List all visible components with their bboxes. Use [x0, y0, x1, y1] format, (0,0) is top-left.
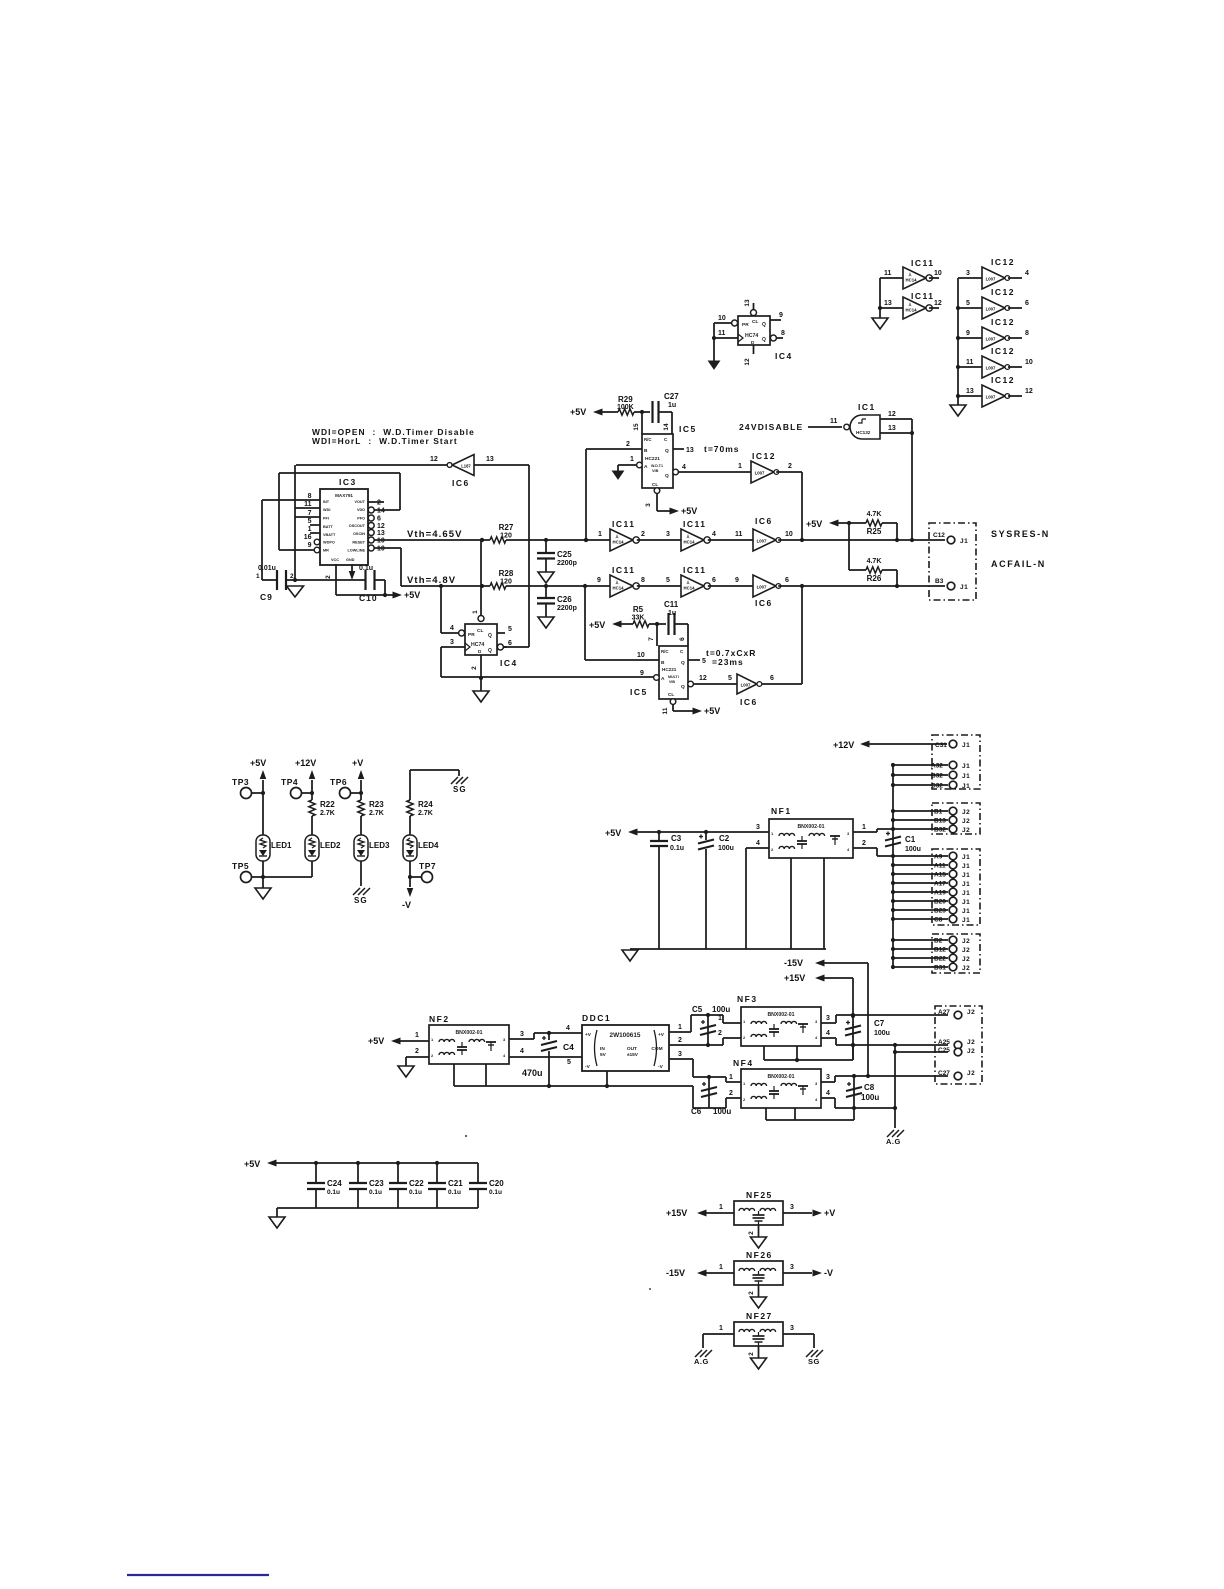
svg-text:12: 12	[1025, 388, 1033, 395]
junction bus B32	[891, 827, 895, 831]
svg-text:+12V: +12V	[833, 740, 854, 750]
svg-text:BNX002-01: BNX002-01	[767, 1012, 794, 1018]
resistor R29	[618, 409, 634, 415]
svg-text:C22: C22	[409, 1179, 424, 1188]
svg-text:A.G: A.G	[694, 1357, 709, 1366]
svg-text:2: 2	[748, 1352, 755, 1356]
svg-text:J2: J2	[967, 1048, 975, 1055]
wire IC4b Qbar stub	[503, 646, 507, 648]
svg-text:3: 3	[826, 1015, 830, 1022]
svg-text:11: 11	[830, 418, 838, 425]
wire TP3 rail	[262, 780, 264, 835]
junction IC12 bus	[956, 336, 960, 340]
svg-text:120: 120	[500, 533, 512, 540]
wire C3 drop	[658, 832, 660, 841]
svg-text:VDD: VDD	[357, 508, 365, 512]
svg-text:A25: A25	[938, 1039, 950, 1046]
svg-text:1: 1	[729, 1074, 733, 1081]
svg-text:LED2: LED2	[320, 841, 341, 850]
junction reset line / CL	[480, 538, 484, 542]
svg-text:CL: CL	[752, 319, 758, 325]
wire NF4 pin1 jog	[725, 1077, 727, 1082]
junction C2	[704, 830, 708, 834]
svg-text:5V: 5V	[600, 1052, 607, 1058]
svg-text:J1: J1	[962, 783, 970, 790]
wire LED4 down	[409, 861, 411, 887]
wire NF2 pin3 jog	[533, 1033, 535, 1039]
svg-text:LED4: LED4	[418, 841, 439, 850]
svg-text:100u: 100u	[874, 1030, 890, 1037]
junction R25 node	[895, 538, 899, 542]
speck	[649, 1288, 651, 1290]
svg-text:VCC: VCC	[331, 558, 339, 562]
junction C5 bottom	[706, 1043, 710, 1047]
junction TP5	[261, 875, 265, 879]
wire NF1 pin1 out	[853, 831, 877, 833]
svg-text:TP7: TP7	[419, 861, 436, 871]
connector pin A17	[949, 879, 957, 887]
svg-text:J1: J1	[960, 584, 968, 591]
svg-text:B13: B13	[934, 818, 946, 825]
wire DDC1 pin1 up	[690, 1015, 692, 1032]
svg-text:-15V: -15V	[784, 958, 803, 968]
svg-text:3: 3	[678, 1051, 682, 1058]
svg-text:A32: A32	[931, 763, 943, 770]
wire output pin 8 of IC12-3	[1008, 337, 1022, 339]
svg-text:+5V: +5V	[589, 620, 605, 630]
wire NF1 pin4 drop	[745, 848, 747, 949]
connector pin C12	[947, 536, 955, 544]
wire IC4b clock elbow	[440, 647, 442, 677]
wire LOWLINE loop down	[400, 548, 402, 586]
arrow +V up	[358, 770, 365, 779]
wire C21 lower lead	[436, 1189, 438, 1208]
junction bus C8	[891, 917, 895, 921]
svg-text:9: 9	[640, 670, 644, 677]
wire LED1 down	[262, 861, 264, 888]
wire NF3 pin4 out	[821, 1037, 836, 1039]
wire NF1 pin4	[746, 847, 769, 849]
svg-text:LED3: LED3	[369, 841, 390, 850]
svg-text:+5V: +5V	[368, 1036, 384, 1046]
wire IC6c output	[762, 683, 803, 685]
capacitor C20	[469, 1182, 487, 1184]
connector pin B32	[949, 825, 957, 833]
buffer IC12-3	[982, 327, 1010, 349]
svg-text:ACFAIL-N: ACFAIL-N	[991, 559, 1046, 569]
svg-text:B1: B1	[934, 809, 943, 816]
wire R28 to C26	[506, 585, 546, 587]
wire NF1 pin2 jog	[876, 848, 878, 856]
svg-text:C26: C26	[557, 595, 572, 604]
wire NF1 pin2 out	[853, 847, 877, 849]
svg-text:4: 4	[566, 1025, 570, 1032]
wire bus to C32	[893, 784, 948, 786]
connector pin A11	[949, 861, 957, 869]
filter NF1	[769, 819, 853, 858]
svg-text:1: 1	[719, 1325, 723, 1332]
wire +5V rail bottom	[336, 594, 394, 596]
svg-text:2: 2	[729, 1090, 733, 1097]
svg-text:VBATT: VBATT	[323, 533, 336, 537]
svg-text:3: 3	[790, 1325, 794, 1332]
svg-text:+5V: +5V	[704, 706, 720, 716]
connector pin A32	[949, 761, 957, 769]
supervisor IC3 MAX791	[314, 489, 374, 565]
svg-text:t=70ms: t=70ms	[704, 444, 740, 454]
wire C7 lower lead	[852, 1016, 854, 1025]
filter NF2	[429, 1025, 509, 1064]
wire NF4 bottom pin b	[794, 1108, 796, 1120]
svg-text:470u: 470u	[522, 1068, 543, 1078]
wire IC4 Q output	[770, 319, 781, 321]
wire A.G to NF27	[703, 1333, 734, 1335]
inverter IC11d	[681, 529, 710, 551]
wire NF4 ground rail	[766, 1119, 854, 1121]
svg-text:BNX002-01: BNX002-01	[455, 1030, 482, 1036]
junction trigger tap	[584, 538, 588, 542]
svg-text:10: 10	[934, 270, 942, 277]
svg-text:J1: J1	[962, 917, 970, 924]
wire C24 upper lead	[315, 1163, 317, 1183]
svg-text:6: 6	[712, 577, 716, 584]
wire bus to B32	[893, 828, 948, 830]
connector pin B3	[947, 582, 955, 590]
junction C5	[706, 1013, 710, 1017]
connector pin A19	[949, 888, 957, 896]
arrow +12V up	[309, 770, 316, 779]
svg-text:1: 1	[415, 1032, 419, 1039]
svg-text:12: 12	[934, 300, 942, 307]
wire A input ground drop	[617, 465, 619, 471]
wire C26 drop	[545, 586, 547, 598]
svg-text:C8: C8	[864, 1083, 875, 1092]
svg-text:J1: J1	[962, 890, 970, 897]
svg-text:2W100615: 2W100615	[610, 1032, 641, 1039]
svg-text:-V: -V	[402, 900, 411, 910]
svg-text:R24: R24	[418, 800, 433, 809]
svg-text:Q: Q	[681, 684, 685, 690]
wire IC5b CL down	[672, 704, 674, 711]
svg-text:A: A	[661, 676, 665, 682]
svg-text:IC1: IC1	[858, 402, 876, 412]
wire LED2 down	[311, 861, 313, 877]
wire C2 top	[705, 832, 707, 840]
capacitor C27	[651, 401, 653, 423]
wire B input pin 10	[585, 659, 659, 661]
wire TP4 stub	[302, 792, 313, 794]
svg-text:A: A	[644, 464, 648, 470]
wire NF2 pin3 out	[509, 1038, 534, 1040]
arrow +5V (C10)	[393, 592, 403, 599]
wire +15V feed	[822, 977, 853, 979]
svg-text:C8: C8	[934, 917, 943, 924]
svg-text:13: 13	[686, 447, 694, 454]
capacitor C26	[537, 597, 555, 599]
capacitor C1	[885, 832, 901, 847]
wire IC4b clock	[441, 646, 465, 648]
svg-text:2: 2	[862, 840, 866, 847]
wire C10 right down	[384, 580, 386, 595]
svg-text:1: 1	[630, 456, 634, 463]
wire IC1 inputs to reset line	[911, 419, 913, 540]
wire A input from IC4	[441, 676, 654, 678]
wire C3 to rail	[658, 846, 660, 949]
wire A.G drop	[894, 1108, 896, 1128]
svg-text:11: 11	[304, 501, 312, 508]
svg-text:R23: R23	[369, 800, 384, 809]
svg-text:0.1u: 0.1u	[409, 1189, 422, 1196]
connector J1 (A9 block)	[932, 849, 980, 925]
svg-text:13: 13	[966, 388, 974, 395]
svg-text:J1: J1	[962, 881, 970, 888]
svg-text:2200p: 2200p	[557, 605, 577, 612]
arrow +5V NF2	[391, 1038, 401, 1045]
wire NF27 left drop	[702, 1334, 704, 1348]
ground C26	[538, 617, 554, 628]
svg-text:2: 2	[471, 666, 478, 670]
svg-text:7: 7	[308, 510, 312, 517]
svg-text:C32: C32	[931, 783, 943, 790]
svg-text:1u: 1u	[668, 610, 676, 617]
svg-text:12: 12	[699, 675, 707, 682]
svg-text:R/C: R/C	[661, 649, 669, 654]
wire TP3 stub	[252, 792, 264, 794]
arrow -15V	[815, 960, 825, 967]
wire COM line to A25	[836, 1044, 948, 1046]
connector pin B31	[949, 963, 957, 971]
wire C6 bottom rail	[693, 1107, 726, 1109]
wire bus to A17	[893, 882, 948, 884]
svg-text:0.1u: 0.1u	[448, 1189, 461, 1196]
svg-text:J2: J2	[967, 1039, 975, 1046]
wire C25 to ground	[545, 559, 547, 573]
svg-text:MULTI: MULTI	[668, 675, 679, 679]
arrow -15V	[697, 1270, 707, 1277]
speck	[465, 1135, 467, 1137]
wire TP4 rail	[311, 780, 313, 800]
wire R29 junction down to pin 15	[641, 412, 643, 434]
wire DDC1 pin1 out	[669, 1031, 691, 1033]
svg-text:C12: C12	[933, 532, 945, 539]
connector pin A27	[954, 1011, 962, 1019]
wire IC5a CL down	[656, 493, 658, 511]
wire C7 to COM	[852, 1036, 854, 1060]
svg-text:IC11: IC11	[911, 291, 935, 301]
buffer IC12 (watchdog)	[751, 461, 779, 483]
svg-text:WDI: WDI	[323, 508, 330, 512]
svg-text:1: 1	[718, 1015, 722, 1022]
arrow +5V NF1	[628, 829, 638, 836]
svg-text:TP3: TP3	[232, 777, 249, 787]
svg-text:SG: SG	[453, 785, 467, 794]
wire NF1 ground rail	[630, 948, 826, 950]
wire TP5 stub	[252, 876, 264, 878]
testpoint TP6	[340, 788, 351, 799]
svg-text:NF1: NF1	[771, 806, 792, 816]
svg-text:C27: C27	[664, 392, 679, 401]
svg-text:10: 10	[377, 538, 385, 545]
svg-text:11: 11	[735, 531, 743, 538]
wire NF2 bottom pin b	[485, 1064, 487, 1086]
ground SG (LED3)	[353, 888, 370, 895]
wire C7 body	[852, 1024, 854, 1037]
svg-text:4.7K: 4.7K	[867, 511, 882, 518]
svg-text:16: 16	[304, 534, 312, 541]
svg-text:VOUT: VOUT	[354, 500, 365, 504]
wire IC6b out to connector	[778, 585, 945, 587]
svg-text:2.7K: 2.7K	[418, 810, 433, 817]
svg-text:Q: Q	[762, 337, 766, 343]
junction bus B2	[891, 938, 895, 942]
svg-text:L007: L007	[755, 471, 765, 476]
arrow +5V cap bank	[267, 1160, 277, 1167]
resistor R23	[358, 800, 364, 816]
svg-text:13: 13	[744, 299, 751, 307]
connector pin C25	[954, 1048, 962, 1056]
svg-text:NF25: NF25	[746, 1190, 773, 1200]
svg-text:2: 2	[678, 1037, 682, 1044]
ground NF1 rail	[622, 950, 638, 961]
svg-text:+V: +V	[585, 1032, 592, 1038]
capacitor C23	[349, 1182, 367, 1184]
wire NF3 pin2 in	[723, 1037, 741, 1039]
svg-text:1: 1	[862, 824, 866, 831]
arrow +15V	[815, 975, 825, 982]
wire IC6 output to WDI loop	[296, 464, 447, 466]
svg-text:C3: C3	[671, 834, 682, 843]
wire lowline to R28	[401, 585, 490, 587]
svg-text:2.7K: 2.7K	[320, 810, 335, 817]
wire output pin 12 of IC12-5	[1008, 395, 1022, 397]
ground IC4 top	[709, 361, 720, 369]
wire R24 top elbow	[409, 770, 411, 800]
svg-text:J1: J1	[962, 872, 970, 879]
wire R24 to LED4	[409, 816, 411, 835]
svg-text:0.1u: 0.1u	[369, 1189, 382, 1196]
junction C3	[657, 830, 661, 834]
wire C23 lower lead	[357, 1189, 359, 1208]
ground A.G (NF27)	[695, 1350, 712, 1357]
svg-text:L007: L007	[741, 683, 751, 688]
svg-text:IC4: IC4	[500, 658, 518, 668]
svg-text:J2: J2	[962, 947, 970, 954]
resistor R22	[309, 800, 315, 816]
svg-text:3: 3	[450, 639, 454, 646]
capacitor C21	[428, 1182, 446, 1184]
wire TP6 rail	[360, 780, 362, 800]
wire bus to A15	[893, 873, 948, 875]
svg-text:4.7K: 4.7K	[867, 558, 882, 565]
wire NF2 pin4 out	[509, 1056, 582, 1058]
wire PFI pin 7	[295, 516, 320, 518]
resistor R28	[490, 583, 506, 589]
arrow -V down	[407, 888, 414, 897]
svg-text:13: 13	[888, 425, 896, 432]
svg-text:1: 1	[719, 1204, 723, 1211]
svg-text:100K: 100K	[617, 404, 634, 411]
junction C4	[547, 1031, 551, 1035]
svg-text:L007: L007	[986, 395, 996, 400]
svg-text:3: 3	[756, 824, 760, 831]
wire MR loop vertical	[278, 473, 280, 550]
svg-text:GND: GND	[346, 558, 355, 562]
filter NF27	[734, 1322, 783, 1346]
svg-text:3: 3	[645, 503, 652, 507]
svg-text:J2: J2	[967, 1009, 975, 1016]
footer rule	[127, 1574, 269, 1576]
arrow +12V	[860, 741, 870, 748]
svg-text:C4: C4	[563, 1042, 574, 1052]
wire NF4 rail up	[853, 1108, 855, 1120]
junction rail / DDC1 pin	[605, 1084, 609, 1088]
svg-text:10: 10	[785, 531, 793, 538]
wire cap bank top rail	[274, 1162, 478, 1164]
wire IC4 D stub	[753, 345, 755, 354]
wire IC4 clock	[714, 337, 738, 339]
one-shot IC5a HC221	[637, 434, 679, 493]
svg-text:C1: C1	[905, 835, 916, 844]
ground A.G	[887, 1130, 904, 1137]
svg-text:HC14: HC14	[906, 308, 918, 313]
svg-text:+V: +V	[824, 1208, 835, 1218]
svg-text:R25: R25	[867, 527, 882, 536]
svg-text:3: 3	[826, 1074, 830, 1081]
junction C4 / rail	[547, 1084, 551, 1088]
wire IC12 output down to reset line	[801, 472, 803, 540]
svg-text:J1: J1	[962, 854, 970, 861]
svg-text:14: 14	[663, 423, 670, 431]
wire COM branch down	[894, 1045, 896, 1108]
svg-text:5: 5	[702, 658, 706, 665]
svg-text:4: 4	[712, 531, 716, 538]
svg-text:A27: A27	[938, 1009, 950, 1016]
svg-text:3: 3	[666, 531, 670, 538]
svg-text:J2: J2	[962, 809, 970, 816]
junction R27 left	[480, 538, 484, 542]
junction C6	[707, 1075, 711, 1079]
wire VOUT stub pin 2	[368, 501, 384, 503]
junction bus A19	[891, 890, 895, 894]
wire bus to B1	[893, 810, 948, 812]
wire A input pin 1	[618, 464, 637, 466]
svg-text:+V: +V	[352, 758, 363, 768]
wire NF1 bottom pin b	[823, 858, 825, 949]
connector pin C27	[954, 1072, 962, 1080]
svg-text:B23: B23	[934, 908, 946, 915]
svg-text:NF3: NF3	[737, 994, 758, 1004]
wire 24VDISABLE to IC1	[808, 426, 842, 428]
ground NF25	[751, 1237, 767, 1248]
connector pin B23	[949, 906, 957, 914]
junction COM branch	[893, 1043, 897, 1047]
svg-text:9: 9	[966, 330, 970, 337]
resistor R25	[866, 520, 882, 526]
junction trigger/reset line	[584, 538, 588, 542]
wire COM rail stub	[692, 1086, 694, 1108]
connector pin C8	[949, 915, 957, 923]
svg-text:BATT: BATT	[323, 525, 334, 529]
junction bus B23	[891, 908, 895, 912]
junction bus A11	[891, 863, 895, 867]
svg-text:1: 1	[472, 610, 479, 614]
arrow +15V	[697, 1210, 707, 1217]
filter NF25	[734, 1201, 783, 1225]
wire to R26	[849, 569, 866, 571]
svg-text:B32: B32	[934, 827, 946, 834]
junction C24 top	[314, 1161, 318, 1165]
junction TP3	[261, 791, 265, 795]
